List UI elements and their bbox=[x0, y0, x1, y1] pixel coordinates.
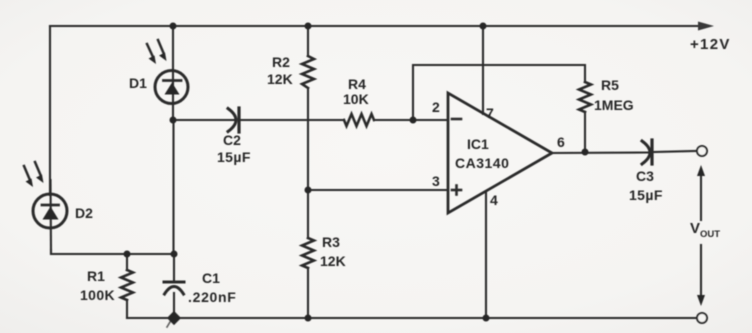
terminal output top bbox=[697, 146, 707, 156]
wire D1 vertical through circle bbox=[172, 26, 174, 120]
+12V arrowhead bbox=[698, 22, 714, 31]
svg-text:7: 7 bbox=[486, 105, 494, 121]
wire D2 bottom bbox=[51, 250, 174, 254]
junction R4 / feedback node bbox=[410, 117, 417, 124]
wire R3 bottom bbox=[307, 268, 309, 318]
svg-text:2: 2 bbox=[432, 99, 440, 115]
svg-text:D2: D2 bbox=[75, 205, 93, 221]
svg-text:C3: C3 bbox=[636, 168, 654, 184]
junction R2 / R3 / pin 3 node bbox=[305, 187, 312, 194]
wire C2 to R4 bbox=[239, 119, 344, 121]
capacitor C2 bbox=[228, 108, 239, 132]
junction D1 / C2 node bbox=[170, 117, 177, 124]
svg-text:R5: R5 bbox=[601, 77, 619, 93]
svg-text:.220nF: .220nF bbox=[188, 289, 237, 305]
svg-text:15µF: 15µF bbox=[629, 187, 663, 203]
wire R4 to pin 2 bbox=[374, 119, 448, 121]
wire feedback loop bbox=[413, 65, 585, 120]
svg-text:C2: C2 bbox=[223, 132, 241, 148]
svg-text:4: 4 bbox=[490, 192, 498, 208]
wire pin 4 bbox=[485, 192, 487, 318]
Vout measurement arrow bbox=[697, 165, 705, 306]
resistor R1 bbox=[121, 254, 133, 318]
wire bottom rail bbox=[127, 317, 697, 319]
wire left vertical to D2 bbox=[49, 26, 51, 195]
wire C3 to terminal bbox=[652, 151, 696, 152]
junction pin 6 / R5 output node bbox=[582, 149, 589, 156]
wire D1 vertical down to lower node bbox=[172, 120, 174, 254]
svg-text:R4: R4 bbox=[348, 76, 366, 92]
junction D2 / R1 node bbox=[124, 251, 131, 258]
op-amp IC1 triangle bbox=[448, 93, 552, 213]
svg-text:6: 6 bbox=[557, 134, 565, 150]
wire pin 7 power bbox=[482, 26, 484, 114]
capacitor C1 bbox=[164, 254, 184, 318]
capacitor C3 bbox=[642, 140, 652, 164]
resistor R4 bbox=[344, 114, 374, 126]
junction R2 / +12V rail bbox=[305, 23, 312, 30]
resistor R3 bbox=[302, 238, 314, 268]
junction D2 / C1 node bbox=[171, 251, 178, 258]
svg-text:IC1: IC1 bbox=[467, 136, 489, 152]
divider vertical R2/R3 bbox=[307, 26, 309, 56]
svg-text:12K: 12K bbox=[320, 253, 346, 269]
svg-text:CA3140: CA3140 bbox=[455, 155, 509, 171]
terminal output bottom bbox=[697, 313, 707, 323]
wire R5 bottom bbox=[584, 112, 586, 152]
wire D2 vertical through circle bbox=[49, 180, 52, 254]
resistor R5 bbox=[579, 82, 591, 112]
svg-text:1MEG: 1MEG bbox=[594, 97, 634, 113]
photodiode D2 bbox=[24, 162, 67, 228]
svg-text:3: 3 bbox=[432, 173, 440, 189]
svg-text:+12V: +12V bbox=[690, 36, 731, 53]
op-amp plus sign bbox=[452, 186, 461, 195]
svg-text:C1: C1 bbox=[202, 270, 220, 286]
wire node to R3 bbox=[307, 190, 309, 238]
svg-text:100K: 100K bbox=[80, 287, 115, 303]
junction C1 / ground rail bbox=[167, 311, 181, 325]
junction pin 4 / ground rail bbox=[483, 315, 490, 322]
wire node to C2 bbox=[173, 119, 235, 121]
op-amp minus sign bbox=[452, 118, 461, 121]
svg-text:D1: D1 bbox=[129, 75, 147, 91]
wire +12V top rail bbox=[50, 25, 707, 27]
svg-text:R1: R1 bbox=[87, 268, 105, 284]
svg-text:10K: 10K bbox=[343, 91, 369, 107]
resistor R2 bbox=[302, 56, 314, 88]
junction R3 / ground rail bbox=[305, 315, 312, 322]
wire R2 bottom down through crossing bbox=[307, 88, 309, 190]
svg-text:15µF: 15µF bbox=[217, 149, 251, 165]
svg-text:R3: R3 bbox=[322, 234, 340, 250]
svg-text:R2: R2 bbox=[272, 54, 290, 70]
photodiode D1 bbox=[147, 40, 188, 104]
svg-text:12K: 12K bbox=[267, 71, 293, 87]
wire pin 3 input bbox=[308, 189, 448, 191]
wire output to C3 bbox=[552, 151, 649, 154]
junction D1 / +12V rail bbox=[170, 23, 177, 30]
junction pin 7 / +12V rail bbox=[480, 23, 487, 30]
